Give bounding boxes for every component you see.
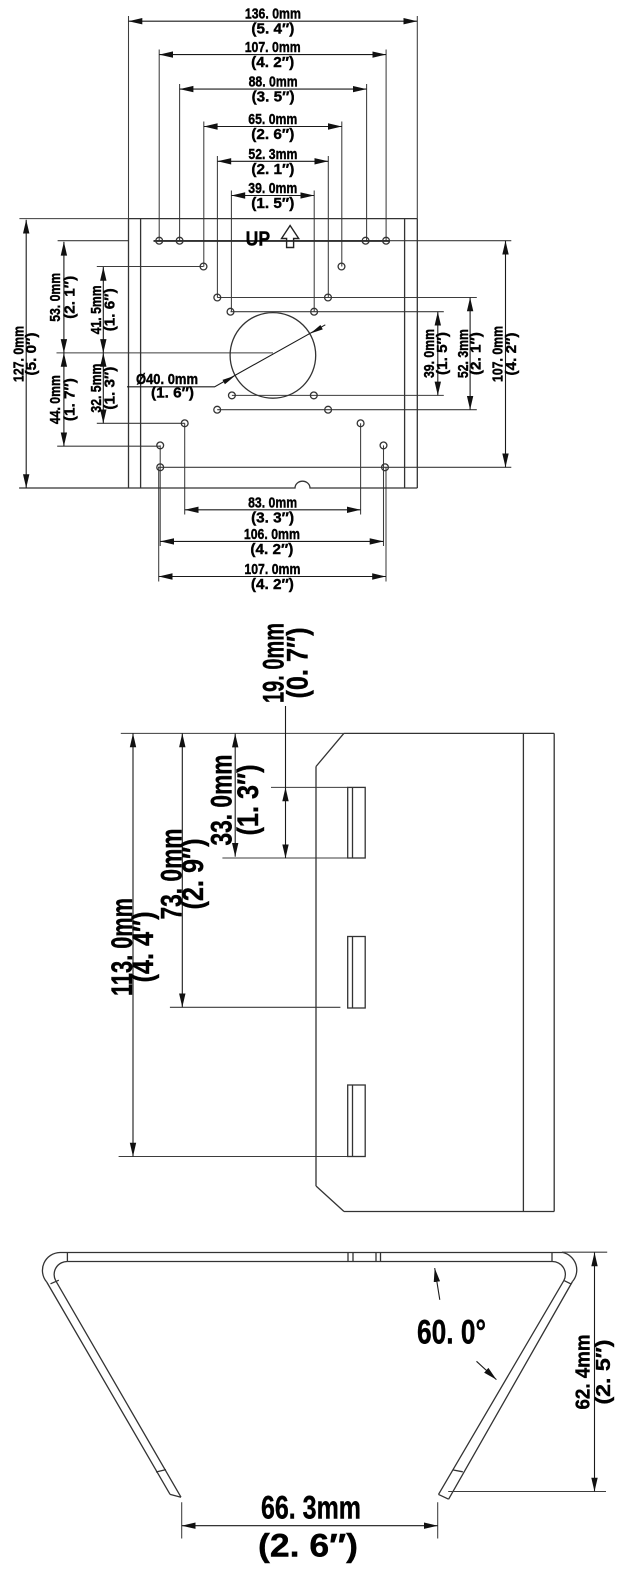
- svg-text:(2. 5″): (2. 5″): [593, 1340, 615, 1405]
- svg-text:(2. 1″): (2. 1″): [468, 332, 485, 375]
- svg-text:(4. 2″): (4. 2″): [250, 541, 293, 558]
- svg-text:(4. 4″): (4. 4″): [127, 912, 160, 983]
- svg-text:(3. 5″): (3. 5″): [252, 89, 295, 106]
- svg-text:(1. 6″): (1. 6″): [151, 385, 194, 402]
- svg-text:(2. 1″): (2. 1″): [62, 276, 79, 319]
- svg-text:(1. 3″): (1. 3″): [101, 367, 118, 410]
- svg-text:60. 0°: 60. 0°: [417, 1314, 486, 1352]
- svg-text:(1. 5″): (1. 5″): [251, 195, 294, 212]
- svg-text:(1. 5″): (1. 5″): [434, 332, 451, 375]
- svg-text:(2. 6″): (2. 6″): [251, 126, 294, 143]
- svg-text:(1. 6″): (1. 6″): [101, 288, 118, 331]
- svg-text:(4. 2″): (4. 2″): [503, 333, 520, 376]
- svg-text:62. 4mm: 62. 4mm: [572, 1335, 594, 1410]
- svg-text:(2. 6″): (2. 6″): [258, 1528, 358, 1564]
- svg-text:(4. 2″): (4. 2″): [251, 576, 294, 593]
- svg-text:(5. 4″): (5. 4″): [251, 21, 294, 38]
- svg-text:(0. 7″): (0. 7″): [282, 628, 315, 699]
- svg-text:(4. 2″): (4. 2″): [251, 54, 294, 71]
- svg-text:(1. 7″): (1. 7″): [62, 378, 79, 421]
- svg-text:(2. 1″): (2. 1″): [251, 161, 294, 178]
- svg-text:(5. 0″): (5. 0″): [23, 333, 40, 376]
- svg-text:66. 3mm: 66. 3mm: [261, 1490, 361, 1526]
- svg-text:(2. 9″): (2. 9″): [177, 839, 210, 910]
- svg-text:(3. 3″): (3. 3″): [251, 509, 294, 526]
- svg-text:UP: UP: [246, 229, 271, 251]
- svg-text:(1. 3″): (1. 3″): [232, 765, 265, 836]
